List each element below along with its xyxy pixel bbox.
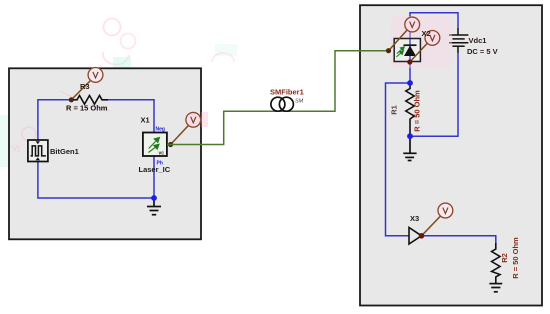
resistor R3 [69, 96, 108, 105]
svg-text:SM: SM [295, 99, 304, 105]
ground (left box) [147, 198, 161, 215]
wire: photodiode bottom to R1 top [409, 62, 411, 84]
svg-text:R3: R3 [80, 82, 90, 91]
svg-text:X2: X2 [422, 29, 431, 38]
node: R1 top junction [407, 80, 413, 86]
voltmeter probe on X2 input [389, 29, 409, 51]
ghost watermark artifacts [0, 19, 237, 168]
fiber SMFiber1 [270, 88, 304, 112]
svg-text:R2: R2 [500, 253, 509, 263]
wire: Laser bottom pin to ground junction [153, 156, 155, 199]
svg-text:X1: X1 [141, 116, 150, 125]
right subcircuit box [360, 5, 542, 305]
svg-text:R = 50 Ohm: R = 50 Ohm [511, 237, 520, 279]
voltmeter probe on X3 output [422, 216, 442, 236]
svg-text:Vdc1: Vdc1 [469, 36, 487, 45]
voltmeter probe on R3 node [71, 80, 91, 100]
resistor R1 [406, 83, 414, 136]
left subcircuit box [9, 68, 201, 239]
wire: optical fiber (green) laser to photodiode [167, 51, 389, 145]
voltmeter probe on X2 bottom [410, 43, 428, 63]
BitGen1 [28, 140, 79, 162]
ground (under R2) [489, 284, 502, 292]
svg-text:R = 50 Ohm: R = 50 Ohm [413, 90, 422, 132]
wire: battery to R1 bottom [410, 53, 458, 136]
svg-text:BitGen1: BitGen1 [50, 147, 79, 156]
ground (under R1) [403, 139, 416, 161]
svg-text:DC = 5 V: DC = 5 V [467, 47, 498, 56]
probe glow X2 [391, 16, 452, 68]
buffer X3 [409, 214, 422, 244]
wire: buffer output to R2 [422, 236, 496, 243]
wire: BitGen1 bottom loop [38, 162, 154, 199]
svg-text:Laser_IC: Laser_IC [139, 165, 171, 174]
svg-text:vc: vc [159, 151, 165, 157]
wire: R3 to Laser top pin [102, 100, 155, 133]
voltmeter probe on laser output [171, 125, 189, 145]
svg-text:R = 15 Ohm: R = 15 Ohm [66, 104, 108, 113]
wire: BitGen1 to R3 (blue) [38, 100, 69, 140]
svg-text:SMFiber1: SMFiber1 [270, 88, 304, 97]
node: laser ground junction [151, 195, 157, 201]
node: R1 bottom junction [407, 133, 413, 139]
svg-text:V(: V( [12, 144, 20, 153]
svg-text:R1: R1 [390, 105, 399, 115]
svg-text:X3: X3 [410, 214, 419, 223]
laser Laser_IC X1 [139, 116, 171, 175]
photodiode X2 [394, 39, 420, 62]
wire: R1 top to buffer input [386, 83, 411, 236]
wire: photodiode top to battery (blue) [410, 13, 458, 39]
svg-text:Neg: Neg [156, 126, 165, 132]
battery Vdc1 [449, 28, 468, 53]
resistor R2 [492, 243, 500, 284]
